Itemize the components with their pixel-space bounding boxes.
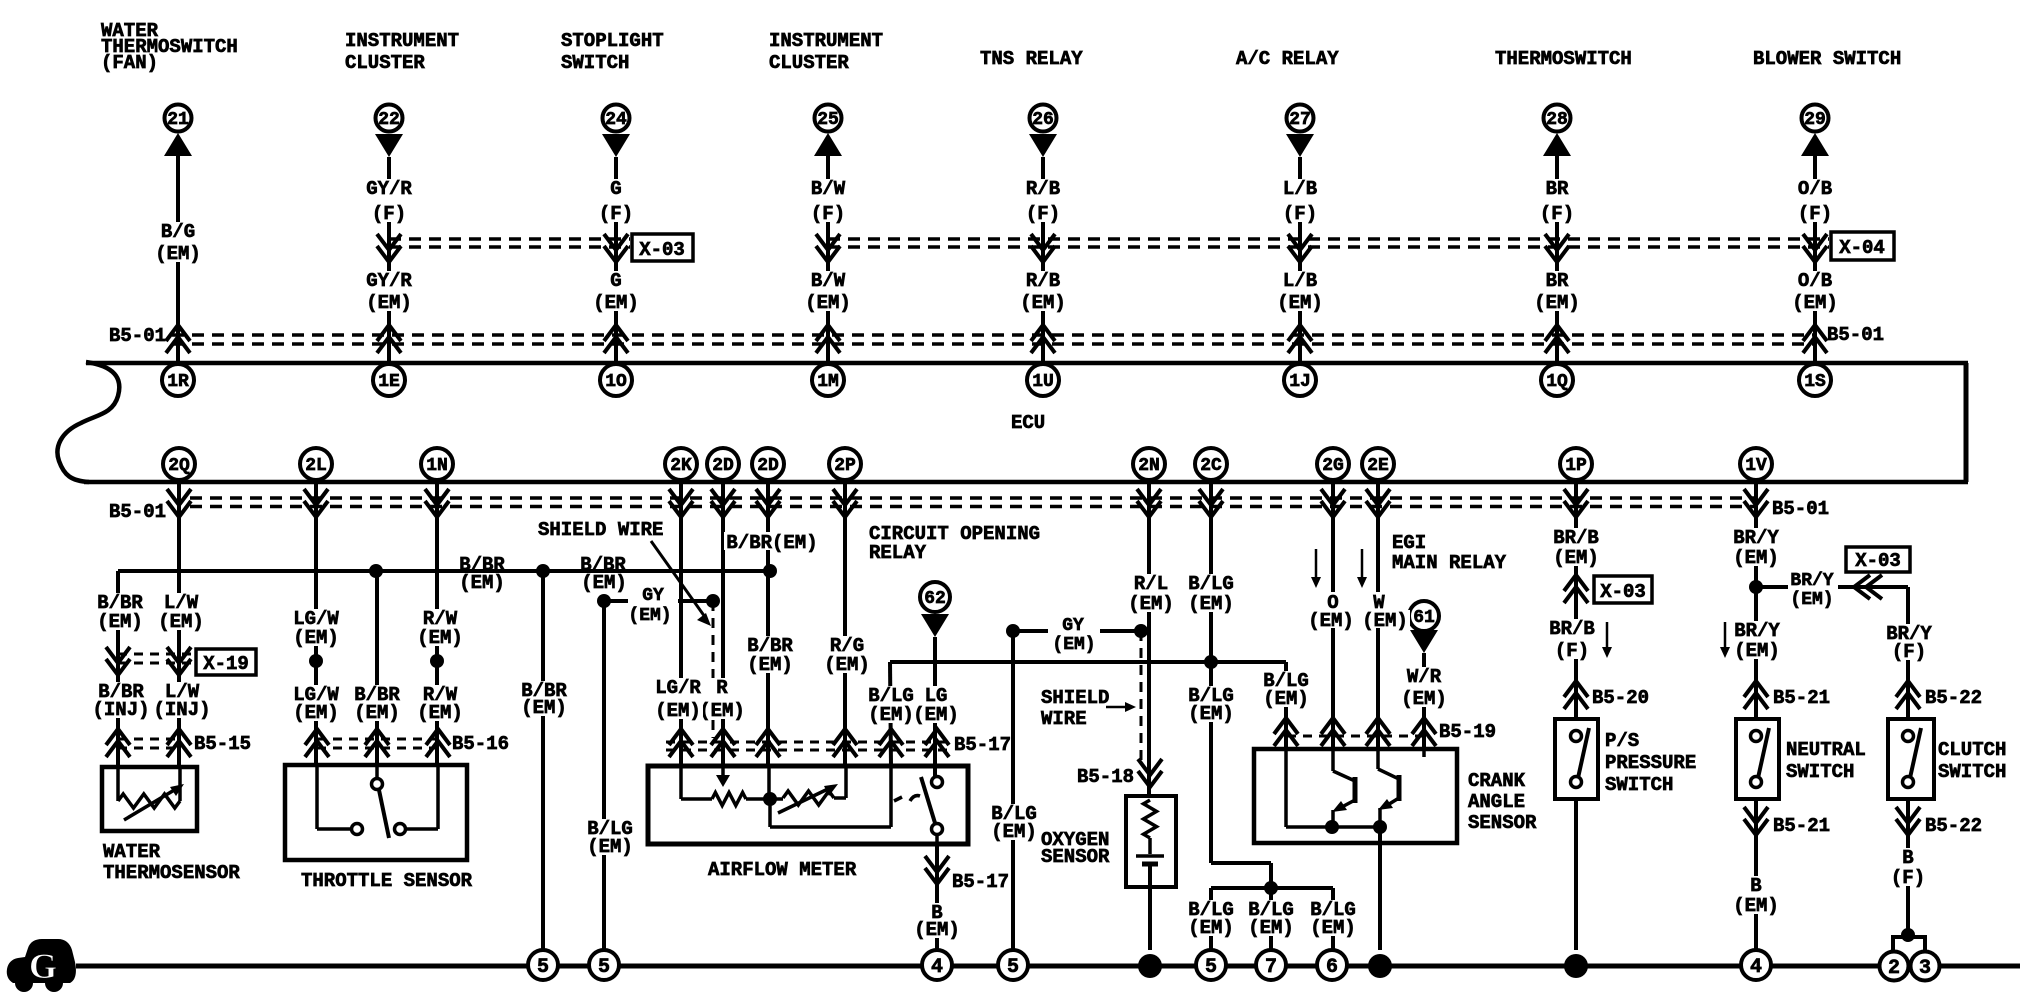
junction B/BR ground branch: [536, 564, 550, 578]
B5-15 chevron right: [167, 729, 191, 757]
ground 5 c: [998, 950, 1028, 980]
wire G col 24: [614, 157, 618, 361]
junction B/BR throttle: [369, 564, 383, 578]
svg-text:R/B: R/B: [1026, 270, 1060, 292]
svg-text:(INJ): (INJ): [92, 699, 149, 721]
B5-20 chevron: [1564, 681, 1588, 709]
svg-text:INSTRUMENT: INSTRUMENT: [769, 30, 883, 52]
shield wire pointer 2: [1106, 706, 1128, 709]
water thermosensor box: [102, 767, 197, 831]
ground 4 b: [1741, 950, 1771, 980]
wire LG/R from pin 2K: [679, 482, 683, 766]
svg-text:B5-17: B5-17: [952, 871, 1009, 893]
B5-01 chevron pin 2C: [1199, 489, 1223, 517]
svg-text:(EM): (EM): [581, 572, 627, 594]
B5-15 dashed lower: [118, 747, 180, 750]
svg-text:(F): (F): [1891, 867, 1925, 889]
X-19 dashed lower: [118, 662, 196, 665]
svg-text:2N: 2N: [1138, 456, 1160, 476]
direction arrow W: [1361, 549, 1364, 584]
label B/LG (EM) oxygen ground: [989, 804, 1039, 840]
wire O/B col 29: [1813, 155, 1817, 361]
svg-text:3: 3: [1919, 957, 1931, 980]
throttle switch lever: [379, 790, 389, 838]
wire B/BR branch to thermosensor: [116, 571, 120, 767]
label R/L (EM): [1126, 574, 1176, 612]
wire crank angle sensor ground: [1378, 827, 1382, 950]
B5-19 chevron O: [1321, 718, 1345, 746]
svg-text:RELAY: RELAY: [869, 542, 927, 564]
wire GY (EM) shield link 2: [1013, 629, 1141, 633]
svg-text:(EM): (EM): [293, 702, 339, 724]
ECU bottom edge: [84, 480, 1968, 485]
ground 2: [1880, 952, 1909, 981]
arrow up connector 21: [164, 133, 192, 156]
label GY (EM) 2: [1048, 622, 1100, 640]
connector 61: [1409, 601, 1439, 631]
connector box X-03 right: [1846, 547, 1910, 572]
svg-text:1V: 1V: [1745, 456, 1767, 476]
B5-01 chevron pin 2K: [669, 489, 693, 517]
arrow down connector 62: [921, 614, 949, 637]
B5-01 chevron col 21: [166, 325, 190, 353]
svg-text:CLUTCH: CLUTCH: [1938, 739, 2006, 761]
ground 3: [1911, 952, 1940, 981]
label B/BR (EM): [95, 593, 145, 630]
wire B/BR to throttle sensor: [375, 571, 379, 765]
B5-01 chevron pin 1N: [425, 489, 449, 517]
B5-15 chevron left: [106, 729, 130, 757]
wire B/LG shield to ground 5: [602, 601, 606, 950]
oxygen sensor internal lead: [1148, 838, 1152, 854]
arrow down connector 22: [375, 134, 403, 157]
airflow lead LG/R: [679, 766, 683, 799]
wire BR/Y from pin 1V: [1754, 482, 1758, 719]
ECU pin 1O: [600, 364, 632, 396]
svg-text:B5-01: B5-01: [1772, 498, 1829, 520]
ECU pin 2G: [1317, 448, 1349, 480]
label BR (EM) col 28: [1532, 271, 1582, 311]
B5-21 chevron upper: [1744, 681, 1768, 709]
svg-text:SWITCH: SWITCH: [561, 52, 629, 74]
B5-17 chevron B/BR: [756, 729, 780, 757]
svg-text:SWITCH: SWITCH: [1605, 774, 1673, 796]
airflow linkage dash 2: [910, 796, 920, 801]
X-03/X-04 dashed line lower right segment: [828, 245, 1829, 249]
airflow wiper lead R: [721, 766, 725, 778]
label B (EM) airflow ground: [912, 903, 962, 938]
B5-01 chevron pin 2D: [756, 489, 780, 517]
ECU pin 2L: [300, 448, 332, 480]
wire B from clutch switch: [1906, 799, 1910, 934]
connector box X-04: [1831, 232, 1894, 260]
svg-text:SHIELD: SHIELD: [1041, 687, 1109, 709]
label R/B (F) col 26: [1024, 179, 1062, 222]
airflow loop bottom: [770, 825, 891, 829]
wire P/S switch to ground: [1574, 799, 1578, 950]
arrow down connector 24: [602, 134, 630, 157]
crank lead B/LG: [1284, 749, 1288, 827]
svg-text:1E: 1E: [378, 372, 400, 392]
X-03 chevron col 25: [816, 234, 840, 262]
svg-text:CLUSTER: CLUSTER: [769, 52, 849, 74]
svg-text:1S: 1S: [1804, 372, 1826, 392]
B5-01 chevron col 28: [1545, 325, 1569, 353]
svg-text:SENSOR: SENSOR: [1041, 846, 1110, 868]
P/S switch contact top: [1571, 731, 1582, 742]
svg-text:4: 4: [1750, 956, 1762, 979]
X-03 chevron BR/B: [1564, 575, 1588, 603]
svg-text:(EM): (EM): [293, 627, 339, 649]
direction arrow O: [1315, 549, 1318, 584]
svg-text:SHIELD WIRE: SHIELD WIRE: [538, 519, 663, 541]
B5-16 dashed upper: [317, 738, 438, 741]
airflow lead to resistor 1: [681, 797, 712, 801]
junction GY2 left: [1006, 624, 1020, 638]
P/S switch contact bottom: [1571, 777, 1582, 788]
label B/LG (EM) crank: [1261, 671, 1311, 707]
wire BR col 28: [1555, 155, 1559, 361]
ECU pin 2C: [1195, 448, 1227, 480]
svg-text:BLOWER SWITCH: BLOWER SWITCH: [1753, 48, 1901, 70]
ground junction P/S switch: [1564, 954, 1588, 978]
label B/LG drop 1: [1186, 900, 1236, 936]
svg-text:(EM): (EM): [1362, 610, 1408, 632]
wire L/B col 27: [1298, 157, 1302, 361]
neutral switch contact bottom: [1751, 777, 1762, 788]
B5-01 chevron col 22: [377, 325, 401, 353]
airflow switch contact bottom: [932, 824, 943, 835]
throttle sensor middle lead: [375, 765, 379, 778]
svg-text:(EM): (EM): [628, 606, 671, 626]
svg-text:G: G: [610, 178, 621, 200]
wire L/W from pin 2Q: [177, 482, 181, 767]
neutral switch box: [1736, 719, 1779, 799]
label B/LG drop 2: [1246, 900, 1296, 936]
svg-text:B/G: B/G: [161, 221, 195, 243]
connector 22: [376, 105, 403, 132]
ground symbol G (car): [7, 939, 76, 992]
svg-text:2C: 2C: [1200, 456, 1222, 476]
crank lead W/R stub: [1422, 749, 1426, 757]
label BR (F) col 28: [1538, 179, 1576, 222]
svg-text:X-03: X-03: [1855, 550, 1901, 572]
wire R/G from pin 2P: [843, 482, 847, 766]
ECU pin 1S: [1799, 364, 1831, 396]
svg-text:5: 5: [1205, 956, 1217, 979]
svg-text:(EM): (EM): [868, 704, 914, 726]
label B/LG (EM) 2C upper: [1186, 574, 1236, 612]
airflow resistor 1: [712, 793, 746, 806]
label B/LG (EM) 2C lower: [1186, 686, 1236, 722]
wire B/LG drop to ground 5: [1209, 888, 1213, 950]
X-03 chevron col 27: [1288, 234, 1312, 262]
wire B/LG from pin 2C: [1209, 482, 1213, 863]
crank lead O: [1331, 749, 1335, 771]
svg-text:SWITCH: SWITCH: [1786, 761, 1854, 783]
label B/G (EM) col 21: [153, 222, 203, 262]
svg-text:25: 25: [817, 110, 839, 130]
label L/W (INJ): [152, 682, 213, 718]
svg-text:1M: 1M: [817, 372, 839, 392]
crank internal bar: [1332, 825, 1380, 829]
connector 62: [920, 582, 950, 612]
B5-01 chevron pin 2L: [304, 489, 328, 517]
svg-text:BR/B: BR/B: [1549, 618, 1595, 640]
label LG/R (EM): [653, 678, 703, 719]
svg-text:2P: 2P: [834, 456, 856, 476]
svg-text:7: 7: [1265, 956, 1277, 979]
clutch switch contact top: [1903, 731, 1914, 742]
P/S pressure switch box: [1555, 719, 1598, 799]
svg-text:2D: 2D: [757, 456, 779, 476]
B5-01 chevron pin 2N: [1137, 489, 1161, 517]
B5-01 chevron col 27: [1288, 325, 1312, 353]
P/S switch lever: [1578, 728, 1589, 778]
arrow up connector 28: [1543, 133, 1571, 156]
svg-text:1P: 1P: [1565, 456, 1587, 476]
wire W/R from connector 61: [1422, 653, 1426, 749]
label BR/Y (F): [1884, 624, 1934, 660]
label B (EM) neutral: [1731, 876, 1781, 914]
svg-text:(EM): (EM): [97, 611, 143, 633]
svg-text:2D: 2D: [712, 456, 734, 476]
junction GY left: [597, 594, 611, 608]
svg-text:2E: 2E: [1367, 456, 1389, 476]
svg-text:(EM): (EM): [1553, 547, 1599, 569]
throttle contact top: [372, 779, 383, 790]
clutch switch box: [1888, 719, 1934, 799]
wire LG/W from pin 2L: [314, 482, 318, 765]
svg-text:W/R: W/R: [1407, 666, 1442, 688]
airflow switch bottom lead: [935, 835, 939, 844]
svg-text:(EM): (EM): [1733, 895, 1779, 917]
ECU pin 1M: [812, 364, 844, 396]
ground junction oxygen sensor: [1138, 954, 1162, 978]
X-03 chevron col 22: [377, 234, 401, 262]
svg-text:(EM): (EM): [459, 572, 505, 594]
label B/W (F) col 25: [809, 179, 847, 222]
label L/B (F) col 27: [1281, 179, 1319, 222]
connector 26: [1030, 105, 1057, 132]
connector 25: [815, 105, 842, 132]
svg-text:(EM): (EM): [991, 821, 1037, 843]
svg-text:B5-01: B5-01: [1827, 324, 1884, 346]
airflow lead R/G: [844, 766, 848, 798]
B5-17 chevron LG: [925, 729, 949, 757]
wire B/W col 25: [826, 155, 830, 361]
oxygen sensor resistor: [1144, 800, 1157, 838]
ground 7: [1256, 950, 1286, 980]
svg-text:(EM): (EM): [1734, 640, 1780, 662]
svg-text:(F): (F): [1555, 640, 1589, 662]
B5-01 chevron pin 2G: [1321, 489, 1345, 517]
svg-text:(EM): (EM): [366, 292, 412, 314]
svg-text:B5-18: B5-18: [1077, 766, 1134, 788]
B5-01 chevron pin 2Q: [167, 489, 191, 517]
svg-text:B: B: [1902, 847, 1913, 869]
wire B from neutral switch: [1754, 799, 1758, 950]
svg-text:B5-17: B5-17: [954, 734, 1011, 756]
svg-text:B5-01: B5-01: [109, 501, 166, 523]
wire R/W from pin 1N: [435, 482, 439, 765]
wire R from pin 2D first: [721, 482, 725, 766]
svg-text:(EM): (EM): [1263, 688, 1309, 710]
wire B/LG into airflow meter: [890, 662, 891, 766]
label W: [1371, 592, 1386, 610]
B5-01 chevron pin 2P: [833, 489, 857, 517]
svg-text:6: 6: [1326, 956, 1338, 979]
wire B/LG jog down: [1269, 863, 1273, 888]
svg-text:B/W: B/W: [811, 178, 846, 200]
svg-text:(EM): (EM): [155, 243, 201, 265]
label B/BR (EM) throttle: [352, 685, 402, 721]
svg-text:(F): (F): [372, 203, 406, 225]
svg-text:B5-21: B5-21: [1773, 815, 1830, 837]
ECU pin 1V: [1740, 448, 1772, 480]
svg-text:62: 62: [924, 589, 946, 609]
svg-text:B5-01: B5-01: [109, 325, 166, 347]
label GY (EM) 1: [628, 593, 678, 609]
svg-text:BR/Y: BR/Y: [1733, 527, 1779, 549]
svg-text:B/LG: B/LG: [1188, 573, 1234, 595]
ground 6: [1317, 950, 1347, 980]
connector box X-03 lower: [1594, 576, 1652, 603]
svg-text:(F): (F): [599, 203, 633, 225]
ECU pin 1N: [421, 448, 453, 480]
throttle sensor right lead: [436, 765, 440, 829]
svg-text:(EM): (EM): [699, 700, 745, 722]
svg-text:WIRE: WIRE: [1041, 708, 1087, 730]
wire B from airflow meter: [935, 844, 939, 950]
svg-text:G: G: [610, 270, 621, 292]
wire BR/B from pin 1P: [1574, 482, 1578, 719]
label BR/Y (EM) lower: [1732, 621, 1782, 659]
label R/W (EM) upper: [415, 609, 465, 646]
ground 4 a: [922, 950, 952, 980]
svg-text:2Q: 2Q: [168, 456, 190, 476]
label O: [1325, 592, 1340, 610]
B5-01 chevron pin 2D: [711, 489, 735, 517]
svg-text:B5-19: B5-19: [1439, 721, 1496, 743]
ECU pin 2Q: [163, 448, 195, 480]
svg-text:B/BR(EM): B/BR(EM): [726, 532, 817, 554]
X-03 chevron col 29: [1803, 234, 1827, 262]
B5-17 chevron lower: [925, 856, 949, 884]
svg-text:29: 29: [1804, 110, 1826, 130]
ECU top edge: [86, 361, 1968, 366]
B5-01 chevron col 25: [816, 325, 840, 353]
airflow link to resistor 2: [746, 797, 783, 801]
ground bus: [76, 964, 2020, 969]
wire B/LG to crank angle sensor: [1284, 662, 1288, 749]
B5-19 dashed: [1287, 735, 1424, 738]
junction inside airflow meter: [763, 792, 777, 806]
wire B/BR to ground 5: [541, 571, 545, 950]
label L/W (EM): [156, 593, 206, 630]
X-03 dashed line lower left segment: [389, 245, 630, 249]
airflow linkage dash 1: [894, 797, 902, 801]
crank pickup 2: [1378, 769, 1399, 779]
label O/B (EM) col 29: [1790, 271, 1840, 311]
direction arrow BR/B: [1606, 622, 1609, 654]
connector 21: [165, 105, 192, 132]
B5-16 chevron middle: [365, 729, 389, 757]
neutral switch contact top: [1751, 731, 1762, 742]
airflow wiper arrow R: [716, 775, 730, 787]
svg-text:R/B: R/B: [1026, 178, 1060, 200]
svg-text:(F): (F): [1283, 203, 1317, 225]
clutch ground fork: [1893, 937, 1925, 951]
label GY/R (F) col 22: [364, 179, 414, 222]
svg-text:1Q: 1Q: [1546, 372, 1568, 392]
svg-text:GY: GY: [642, 586, 664, 606]
svg-text:(EM): (EM): [1277, 292, 1323, 314]
label LG/W (EM) lower: [291, 685, 341, 721]
ECU pin 2E: [1362, 448, 1394, 480]
airflow potentiometer arrow: [778, 788, 830, 813]
svg-text:O/B: O/B: [1798, 178, 1832, 200]
svg-text:(EM): (EM): [1188, 593, 1234, 615]
airflow loop up lead B/LG: [889, 766, 893, 827]
label BR/B (EM): [1551, 528, 1601, 566]
svg-text:(EM): (EM): [1308, 610, 1354, 632]
B5-16 chevron left: [305, 729, 329, 757]
svg-text:INSTRUMENT: INSTRUMENT: [345, 30, 459, 52]
svg-text:L/B: L/B: [1283, 270, 1317, 292]
wire R/B col 26: [1041, 157, 1045, 361]
arrow down connector 61: [1410, 630, 1438, 653]
svg-text:(F): (F): [1892, 641, 1926, 663]
ECU pin 2N: [1133, 448, 1165, 480]
X-03 dashed line upper left segment: [389, 237, 630, 241]
B5-01 chevron col 26: [1031, 325, 1055, 353]
airflow meter box: [648, 766, 968, 844]
X-19 chevron right: [167, 647, 191, 675]
svg-text:(EM): (EM): [1310, 917, 1356, 939]
svg-text:(EM): (EM): [1052, 635, 1095, 655]
connector box X-19: [196, 649, 256, 675]
direction arrow BR/Y: [1724, 622, 1727, 654]
svg-text:5: 5: [1007, 956, 1019, 979]
oxygen sensor cell plate long: [1136, 854, 1164, 858]
svg-text:X-19: X-19: [203, 653, 249, 675]
connector box X-03: [632, 234, 693, 261]
ground 5 d: [1196, 950, 1226, 980]
label BR/Y (EM) 1V: [1731, 528, 1781, 566]
wire LG from connector 62: [933, 637, 937, 777]
label BR/Y (EM) horizontal: [1788, 578, 1838, 596]
X-19 chevron left: [106, 647, 130, 675]
splice LG/W: [309, 654, 323, 668]
throttle sensor box: [285, 765, 467, 860]
svg-text:THERMOSENSOR: THERMOSENSOR: [103, 862, 240, 884]
arrow down connector 26: [1029, 134, 1057, 157]
wire W from pin 2E: [1376, 482, 1380, 749]
svg-text:B5-22: B5-22: [1925, 687, 1982, 709]
clutch switch contact bottom: [1903, 777, 1914, 788]
svg-text:(EM): (EM): [1248, 917, 1294, 939]
svg-text:(EM): (EM): [1401, 688, 1447, 710]
svg-text:AIRFLOW METER: AIRFLOW METER: [708, 859, 857, 881]
label R/W (EM) lower: [415, 685, 465, 721]
label B/BR (INJ): [90, 682, 151, 718]
label G (EM) col 24: [591, 271, 641, 311]
svg-text:CRANK: CRANK: [1468, 770, 1526, 792]
ECU pin 2K: [665, 448, 697, 480]
junction B/BR at pin 2D wire: [763, 564, 777, 578]
B5-17 chevron R/G: [833, 729, 857, 757]
